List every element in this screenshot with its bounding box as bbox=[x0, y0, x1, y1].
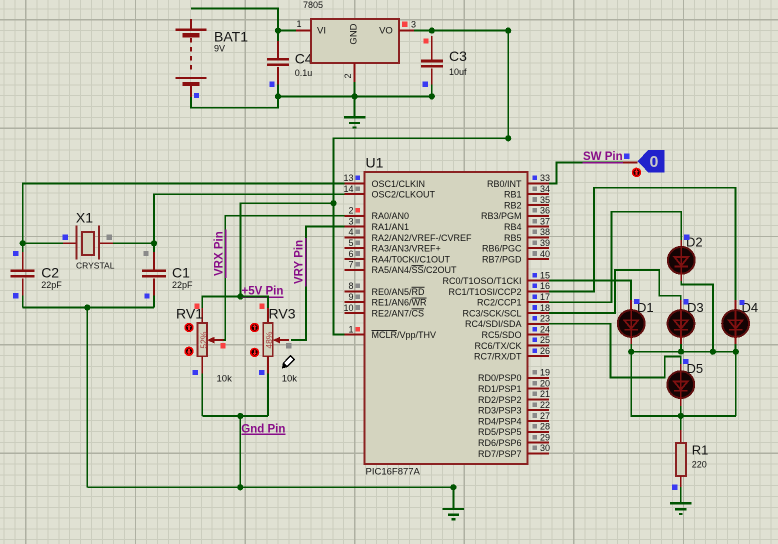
svg-text:RD4/PSP4: RD4/PSP4 bbox=[478, 416, 522, 426]
capacitor C4 bbox=[267, 59, 289, 64]
node R1 junction bbox=[678, 413, 684, 419]
wire battery+ top rail bbox=[191, 8, 278, 30]
svg-text:7805: 7805 bbox=[303, 0, 323, 10]
led D2 bbox=[668, 247, 695, 274]
svg-text:0.1u: 0.1u bbox=[295, 68, 313, 78]
wire D1 cathode bbox=[630, 336, 632, 344]
resistor R1 bbox=[676, 443, 686, 476]
svg-text:34: 34 bbox=[540, 184, 550, 194]
marker D1 bbox=[634, 299, 639, 304]
svg-text:OSC1/CLKIN: OSC1/CLKIN bbox=[372, 179, 426, 189]
pin 16 U1 right bbox=[448, 281, 550, 297]
svg-text:1: 1 bbox=[348, 324, 353, 334]
marker C2 top bbox=[13, 251, 18, 256]
led D4 bbox=[722, 310, 749, 337]
svg-text:RE2/AN7/CS: RE2/AN7/CS bbox=[372, 308, 425, 318]
svg-text:RC0/T1OSO/T1CKI: RC0/T1OSO/T1CKI bbox=[442, 276, 521, 286]
svg-text:220: 220 bbox=[692, 460, 707, 470]
svg-text:PIC16F877A: PIC16F877A bbox=[366, 467, 421, 478]
svg-text:U1: U1 bbox=[366, 155, 384, 171]
node bus D1 bbox=[628, 349, 634, 355]
node VI junction bbox=[275, 28, 281, 34]
pin 14 U1 left bbox=[343, 184, 435, 200]
svg-text:C3: C3 bbox=[449, 48, 467, 64]
wire C3 bottom pin bbox=[431, 69, 433, 85]
capacitor C1 bbox=[142, 271, 166, 276]
net label VRY Pin bbox=[294, 238, 306, 286]
svg-text:22: 22 bbox=[540, 400, 550, 410]
regulator U2 7805 body bbox=[311, 19, 399, 63]
node VO corner top bbox=[505, 28, 511, 34]
svg-text:BAT1: BAT1 bbox=[214, 29, 248, 45]
wire +5V to pots bbox=[241, 203, 334, 296]
wire D5 cathode bbox=[680, 397, 682, 406]
svg-text:RD2/PSP2: RD2/PSP2 bbox=[478, 395, 522, 405]
svg-text:14: 14 bbox=[343, 184, 353, 194]
SW toggle button bbox=[632, 168, 641, 177]
wire pots gnd bbox=[202, 415, 268, 417]
svg-text:RC5/SDO: RC5/SDO bbox=[481, 330, 521, 340]
pin 4 U1 left bbox=[345, 227, 472, 243]
wire C1 pins bbox=[153, 243, 155, 252]
pin 17 U1 right bbox=[477, 292, 550, 308]
svg-text:3: 3 bbox=[411, 20, 416, 30]
marker D4 bbox=[739, 300, 744, 305]
svg-text:VRX Pin: VRX Pin bbox=[214, 231, 226, 276]
pin 19 U1 right bbox=[478, 368, 550, 384]
node crystal right bbox=[151, 240, 157, 246]
svg-text:RE0/AN5/RD: RE0/AN5/RD bbox=[372, 287, 426, 297]
marker RV3 wiper bbox=[286, 343, 291, 348]
marker SW pin bbox=[624, 154, 629, 159]
svg-text:GND: GND bbox=[349, 23, 360, 44]
pin 2 7805 bbox=[354, 63, 356, 82]
marker X1 left bbox=[63, 235, 68, 240]
wire RV1 bottom pin bbox=[201, 356, 203, 373]
node +5V branch junction bbox=[330, 200, 336, 206]
svg-text:22pF: 22pF bbox=[41, 280, 62, 290]
pin 29 U1 right bbox=[478, 432, 550, 448]
pin 24 U1 right bbox=[481, 324, 550, 340]
svg-text:RB1: RB1 bbox=[504, 190, 522, 200]
svg-text:RD5/PSP5: RD5/PSP5 bbox=[478, 427, 522, 437]
svg-text:RA3/AN3/VREF+: RA3/AN3/VREF+ bbox=[372, 244, 441, 254]
pin 10 U1 left bbox=[343, 303, 424, 319]
logicstate 0 bbox=[638, 150, 665, 173]
svg-text:1: 1 bbox=[296, 19, 301, 29]
marker C4 bottom bbox=[269, 82, 274, 87]
node VO drop corner bbox=[505, 135, 511, 141]
svg-text:25: 25 bbox=[540, 335, 550, 345]
svg-text:29: 29 bbox=[540, 432, 550, 442]
wire ground rail top bbox=[278, 95, 432, 97]
svg-text:RA0/AN0: RA0/AN0 bbox=[372, 211, 410, 221]
node gnd pin junction bbox=[237, 413, 243, 419]
svg-text:48%: 48% bbox=[264, 331, 274, 348]
wire RV3 bottom pin bbox=[267, 356, 269, 373]
wire D3 cathode bbox=[680, 336, 682, 344]
svg-text:35: 35 bbox=[540, 195, 550, 205]
svg-text:C2: C2 bbox=[41, 265, 59, 281]
svg-text:9: 9 bbox=[348, 292, 353, 302]
wire cathode bus bbox=[631, 352, 736, 416]
marker RV1 bottom bbox=[193, 370, 198, 375]
pin 40 U1 right bbox=[482, 249, 550, 265]
svg-text:20: 20 bbox=[540, 378, 550, 388]
svg-text:D5: D5 bbox=[687, 361, 704, 376]
pin 9 U1 left bbox=[345, 292, 427, 308]
pin 28 U1 right bbox=[478, 422, 550, 438]
marker pin3 bbox=[402, 22, 407, 27]
svg-text:52%: 52% bbox=[199, 331, 209, 348]
marker D3 bbox=[683, 299, 688, 304]
ground symbol R1 bbox=[670, 503, 692, 514]
pin 8 U1 left bbox=[345, 281, 425, 297]
svg-text:9V: 9V bbox=[214, 43, 225, 53]
marker RV1 top bbox=[194, 304, 199, 309]
pin 39 U1 right bbox=[482, 238, 550, 254]
svg-text:7: 7 bbox=[348, 260, 353, 270]
wire SW net bbox=[549, 163, 623, 184]
svg-text:RB5: RB5 bbox=[504, 233, 522, 243]
wire D1 anode net bbox=[549, 281, 631, 300]
wire OSC2 net bbox=[154, 194, 348, 243]
pin 18 U1 right bbox=[462, 303, 550, 319]
wire D3 anode net bbox=[549, 270, 681, 313]
svg-text:OSC2/CLKOUT: OSC2/CLKOUT bbox=[372, 190, 436, 200]
svg-text:2: 2 bbox=[343, 73, 353, 78]
svg-text:26: 26 bbox=[540, 346, 550, 356]
svg-text:4: 4 bbox=[348, 227, 353, 237]
svg-text:23: 23 bbox=[540, 314, 550, 324]
marker X1 right bbox=[107, 235, 112, 240]
net label +5V Pin bbox=[242, 286, 284, 298]
node rail junction bbox=[237, 484, 243, 490]
pin 15 U1 right bbox=[442, 270, 550, 286]
potentiometer RV3 bbox=[263, 323, 289, 356]
svg-text:28: 28 bbox=[540, 422, 550, 432]
svg-text:RC4/SDI/SDA: RC4/SDI/SDA bbox=[465, 319, 522, 329]
svg-text:RD7/PSP7: RD7/PSP7 bbox=[478, 449, 522, 459]
wire R1 top pin bbox=[680, 416, 682, 430]
node crystal left bbox=[20, 240, 26, 246]
net label SW Pin bbox=[583, 151, 624, 163]
wire gnd drop bbox=[239, 416, 241, 487]
svg-text:X1: X1 bbox=[76, 210, 93, 226]
potentiometer RV1 bbox=[198, 323, 224, 356]
pin 2 U1 left bbox=[345, 206, 409, 222]
node bus D3 bbox=[678, 349, 684, 355]
svg-text:RA1/AN1: RA1/AN1 bbox=[372, 222, 410, 232]
pin 21 U1 right bbox=[478, 389, 550, 405]
svg-text:33: 33 bbox=[540, 173, 550, 183]
svg-text:18: 18 bbox=[540, 303, 550, 313]
svg-text:RD3/PSP3: RD3/PSP3 bbox=[478, 406, 522, 416]
pin 22 U1 right bbox=[478, 400, 550, 416]
wire D2 anode net bbox=[549, 212, 681, 303]
svg-text:RV1: RV1 bbox=[176, 306, 203, 322]
svg-text:RD0/PSP0: RD0/PSP0 bbox=[478, 373, 522, 383]
pin 1 U1 left bbox=[345, 324, 436, 340]
svg-text:VRY Pin: VRY Pin bbox=[294, 240, 306, 284]
svg-text:RD1/PSP1: RD1/PSP1 bbox=[478, 384, 522, 394]
pin 37 U1 right bbox=[504, 216, 550, 232]
marker battery pin bbox=[194, 93, 199, 98]
marker C2 bottom bbox=[13, 293, 18, 298]
wire bus drop left bbox=[631, 352, 736, 416]
svg-text:8: 8 bbox=[348, 281, 353, 291]
pin 6 U1 left bbox=[345, 249, 451, 265]
pin 1 7805 bbox=[278, 30, 296, 32]
wire D5 anode net bbox=[549, 324, 681, 378]
marker RV3 bottom bbox=[259, 370, 264, 375]
net label Gnd Pin bbox=[241, 423, 285, 435]
node +5V Pin junction bbox=[237, 293, 243, 299]
net label VRX Pin bbox=[214, 229, 226, 278]
pin 3 7805 bbox=[399, 30, 414, 32]
wire C2 pins bbox=[22, 243, 24, 252]
led D5 bbox=[667, 371, 694, 398]
wire C3 top pin bbox=[431, 36, 433, 61]
wire battery- bottom bbox=[191, 96, 278, 108]
svg-text:CRYSTAL: CRYSTAL bbox=[76, 260, 115, 270]
wire bottom gnd rail bbox=[87, 486, 453, 488]
pin 3 U1 left bbox=[345, 216, 409, 232]
svg-text:RB4: RB4 bbox=[504, 222, 522, 232]
pin 35 U1 right bbox=[504, 195, 550, 211]
svg-text:15: 15 bbox=[540, 270, 550, 280]
capacitor C2 bbox=[11, 271, 35, 276]
svg-text:17: 17 bbox=[540, 292, 550, 302]
svg-text:RA2/AN2/VREF-/CVREF: RA2/AN2/VREF-/CVREF bbox=[372, 233, 473, 243]
wire D4 anode net bbox=[549, 188, 736, 300]
svg-text:21: 21 bbox=[540, 389, 550, 399]
node crystal gnd bbox=[84, 304, 90, 310]
wire C4 top pin bbox=[277, 31, 279, 41]
node VO junction bbox=[429, 28, 435, 34]
marker C1 bottom bbox=[144, 293, 149, 298]
pin 36 U1 right bbox=[481, 206, 550, 222]
svg-text:RV3: RV3 bbox=[269, 306, 296, 322]
svg-text:RC2/CCP1: RC2/CCP1 bbox=[477, 298, 522, 308]
RV3 down button bbox=[250, 348, 259, 357]
marker D2 bbox=[684, 235, 689, 240]
svg-text:6: 6 bbox=[348, 249, 353, 259]
svg-text:13: 13 bbox=[343, 173, 353, 183]
svg-text:VI: VI bbox=[317, 26, 326, 37]
wire C4 bottom pin bbox=[277, 67, 279, 85]
svg-text:0: 0 bbox=[650, 154, 659, 171]
svg-text:RB3/PGM: RB3/PGM bbox=[481, 211, 522, 221]
svg-text:37: 37 bbox=[540, 216, 550, 226]
RV3 up button bbox=[250, 323, 259, 332]
svg-text:RC6/TX/CK: RC6/TX/CK bbox=[474, 341, 521, 351]
svg-text:16: 16 bbox=[540, 281, 550, 291]
svg-text:RA5/AN4/SS/C2OUT: RA5/AN4/SS/C2OUT bbox=[372, 265, 458, 275]
cursor pencil bbox=[281, 356, 295, 370]
wire crystal row bbox=[23, 242, 63, 244]
svg-text:RD6/PSP6: RD6/PSP6 bbox=[478, 438, 522, 448]
logicstate pin bbox=[623, 162, 638, 164]
pin 30 U1 right bbox=[478, 443, 550, 459]
svg-text:5: 5 bbox=[348, 238, 353, 248]
wire VO to +5V column bbox=[334, 31, 509, 335]
svg-text:27: 27 bbox=[540, 411, 550, 421]
mcu U1 body bbox=[365, 172, 528, 464]
svg-text:VO: VO bbox=[379, 26, 393, 37]
wire crystal gnd drop bbox=[86, 308, 88, 488]
svg-text:MCLR/Vpp/THV: MCLR/Vpp/THV bbox=[372, 330, 437, 340]
marker R1 bottom bbox=[672, 484, 677, 489]
led D3 bbox=[668, 310, 695, 337]
svg-text:RB7/PGD: RB7/PGD bbox=[482, 254, 522, 264]
RV1 down button bbox=[184, 347, 193, 356]
svg-text:24: 24 bbox=[540, 324, 550, 334]
node rail gnd bbox=[450, 484, 456, 490]
pin 13 U1 left bbox=[343, 173, 425, 189]
marker C3 bottom bbox=[423, 82, 428, 87]
pin 33 U1 right bbox=[487, 173, 550, 189]
svg-text:38: 38 bbox=[540, 227, 550, 237]
wire D2 cathode bbox=[680, 273, 682, 281]
marker D5 bbox=[683, 359, 688, 364]
svg-text:RC1/T1OSI/CCP2: RC1/T1OSI/CCP2 bbox=[448, 287, 521, 297]
wire VRX net bbox=[218, 216, 348, 340]
node bus D2 bbox=[710, 349, 716, 355]
wire crystal bottom bbox=[23, 307, 154, 309]
svg-text:RB6/PGC: RB6/PGC bbox=[482, 244, 522, 254]
battery BAT1 bbox=[176, 19, 207, 97]
svg-text:22pF: 22pF bbox=[172, 280, 193, 290]
node bus D4 bbox=[733, 349, 739, 355]
pin 25 U1 right bbox=[474, 335, 550, 351]
svg-text:40: 40 bbox=[540, 249, 550, 259]
ground symbol rail bbox=[443, 487, 465, 519]
svg-text:RC7/RX/DT: RC7/RX/DT bbox=[474, 352, 522, 362]
svg-text:36: 36 bbox=[540, 206, 550, 216]
wire VRY net bbox=[291, 227, 348, 341]
pin 7 U1 left bbox=[345, 260, 457, 276]
ground symbol 7805 bbox=[344, 96, 366, 127]
wire +5V to RV1 top bbox=[202, 297, 240, 309]
capacitor C3 bbox=[421, 61, 443, 66]
svg-text:10k: 10k bbox=[217, 374, 233, 385]
svg-text:C1: C1 bbox=[172, 265, 190, 281]
led D1 bbox=[618, 310, 645, 337]
pin 5 U1 left bbox=[345, 238, 441, 254]
svg-text:19: 19 bbox=[540, 368, 550, 378]
pin 38 U1 right bbox=[504, 227, 550, 243]
svg-text:39: 39 bbox=[540, 238, 550, 248]
svg-text:R1: R1 bbox=[692, 443, 709, 458]
pin 26 U1 right bbox=[474, 346, 550, 362]
RV1 up button bbox=[184, 323, 193, 332]
marker RV1 wiper bbox=[220, 343, 225, 348]
svg-text:RC3/SCK/SCL: RC3/SCK/SCL bbox=[462, 308, 521, 318]
svg-text:10uf: 10uf bbox=[449, 67, 467, 77]
wire OSC1 net bbox=[23, 183, 348, 243]
node gnd junctions bbox=[275, 93, 281, 99]
pin 27 U1 right bbox=[478, 411, 550, 427]
pin 34 U1 right bbox=[504, 184, 550, 200]
crystal X1 bbox=[77, 226, 99, 260]
marker C3 top bbox=[423, 38, 428, 43]
svg-text:3: 3 bbox=[348, 216, 353, 226]
wire +5V to RV3 top bbox=[241, 297, 269, 309]
svg-text:10k: 10k bbox=[282, 374, 298, 385]
svg-text:SW Pin: SW Pin bbox=[583, 151, 623, 163]
svg-text:RB0/INT: RB0/INT bbox=[487, 179, 522, 189]
svg-text:D3: D3 bbox=[687, 300, 704, 315]
wire R1 bottom pin bbox=[680, 476, 682, 487]
pin 23 U1 right bbox=[465, 314, 550, 330]
marker C1 top bbox=[143, 251, 148, 256]
svg-text:2: 2 bbox=[348, 206, 353, 216]
marker RV3 top bbox=[259, 304, 264, 309]
wire D4 cathode bbox=[735, 336, 737, 344]
svg-text:RB2: RB2 bbox=[504, 200, 522, 210]
svg-text:RA4/T0CKI/C1OUT: RA4/T0CKI/C1OUT bbox=[372, 254, 451, 264]
svg-text:30: 30 bbox=[540, 443, 550, 453]
svg-text:RE1/AN6/WR: RE1/AN6/WR bbox=[372, 298, 428, 308]
pin 20 U1 right bbox=[478, 378, 550, 394]
svg-text:10: 10 bbox=[343, 303, 353, 313]
